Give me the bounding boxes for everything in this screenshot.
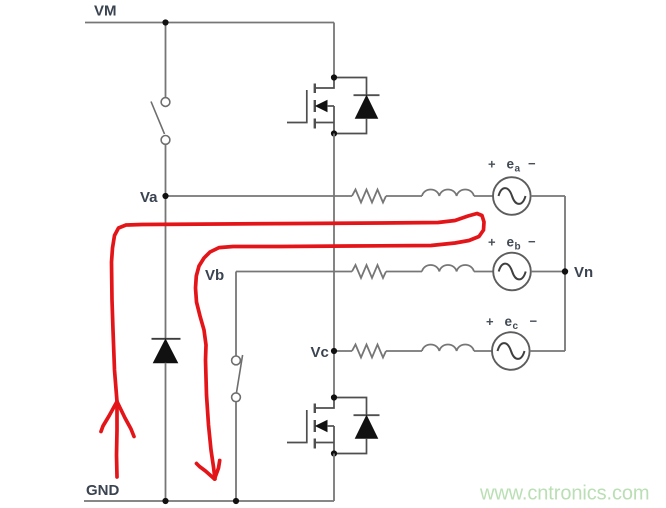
wire Lb to source eb — [474, 271, 493, 273]
node Va — [162, 193, 168, 199]
svg-text:−: − — [530, 313, 538, 328]
node GND-left junction — [162, 498, 168, 504]
label + ea - — [488, 156, 536, 175]
svg-text:b: b — [515, 241, 521, 252]
wire eb to Vn node — [531, 271, 565, 273]
diode D2 (Q1 body diode) — [334, 78, 380, 134]
wire S2 to GND rail — [235, 402, 237, 501]
svg-text:+: + — [488, 234, 496, 249]
svg-text:−: − — [528, 156, 536, 171]
wire Q2 source to GND rail — [333, 454, 335, 502]
MOSFET Q2 (low side) — [287, 398, 334, 454]
wire center vertical top (VM to Q1 drain) — [333, 23, 335, 78]
switch S2 — [232, 355, 243, 402]
svg-text:+: + — [486, 314, 494, 329]
wire center vertical (Q1 source to Vc node) — [333, 134, 335, 352]
inductor Lc — [422, 344, 474, 351]
wire Rb to Lb — [386, 271, 422, 273]
node Vn — [562, 268, 568, 274]
wire Va node down to diode D1 — [165, 196, 167, 339]
wire center vertical (Vc to Q2 drain) — [333, 351, 335, 398]
diode D3 (Q2 body diode) — [334, 398, 380, 454]
wire red current path (hand drawn loop) — [101, 214, 484, 480]
wire Lc to source ec — [474, 350, 492, 352]
wire ea to right rail — [531, 195, 565, 197]
svg-text:−: − — [528, 234, 536, 249]
source ea — [493, 177, 531, 215]
wire S1 to Va node — [165, 145, 167, 197]
wire phase A (Va node to resistor) — [166, 195, 353, 197]
resistor Rc — [352, 345, 386, 358]
red arrowhead down (middle branch) — [197, 464, 215, 480]
node Vc — [331, 348, 337, 354]
wire phase B (Vb to resistor) — [236, 271, 352, 273]
node Q2 drain — [331, 394, 337, 400]
diode D1 — [152, 339, 181, 363]
wire left vertical (VM node to switch S1) — [165, 23, 167, 98]
svg-text:VM: VM — [94, 2, 117, 19]
wire phase B vertical branch (Vb to switch S2) — [235, 272, 237, 356]
resistor Ra — [352, 190, 386, 203]
node Q1 drain — [331, 74, 337, 80]
svg-text:e: e — [505, 314, 513, 329]
svg-text:GND: GND — [86, 482, 120, 499]
svg-text:e: e — [507, 234, 515, 249]
wire La to source ea — [474, 195, 493, 197]
wire GND bottom rail — [84, 500, 334, 502]
svg-text:c: c — [513, 321, 519, 332]
label + eb - — [488, 234, 536, 253]
wire Ra to La — [386, 195, 422, 197]
source eb — [493, 253, 531, 291]
inductor La — [422, 189, 474, 196]
red arrowhead up (left branch) — [101, 402, 117, 432]
label + ec - — [486, 313, 538, 332]
node Q1 source — [331, 130, 337, 136]
source ec — [492, 332, 530, 370]
wire VM top rail — [85, 22, 334, 24]
MOSFET Q1 (high side) — [287, 78, 334, 134]
node Q2 source — [331, 450, 337, 456]
node VM junction — [162, 19, 168, 25]
svg-text:a: a — [515, 163, 521, 174]
svg-text:www.cntronics.com: www.cntronics.com — [479, 483, 649, 505]
wire D1 to GND rail — [165, 363, 167, 501]
wire ec to right rail — [530, 350, 565, 352]
switch S1 — [151, 98, 170, 145]
inductor Lb — [422, 265, 474, 272]
svg-text:e: e — [507, 156, 515, 171]
svg-text:Va: Va — [140, 189, 158, 206]
wire right rail (phase A to Vn to phase C) — [564, 196, 566, 351]
resistor Rb — [352, 265, 386, 278]
node GND-S2 junction — [233, 498, 239, 504]
wire phase C (Vc node to resistor) — [334, 350, 352, 352]
svg-text:Vn: Vn — [574, 264, 593, 281]
svg-text:Vb: Vb — [205, 267, 224, 284]
wire Rc to Lc — [386, 350, 422, 352]
svg-text:Vc: Vc — [311, 344, 329, 361]
svg-text:+: + — [488, 156, 496, 171]
